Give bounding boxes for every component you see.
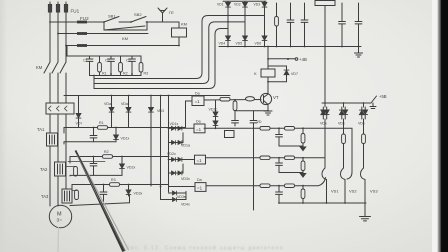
wire feed 2: [94, 22, 245, 84]
wire +4V rail: [268, 47, 295, 59]
pointer stick shadow: [79, 156, 129, 251]
wire row3 bottom: [70, 195, 130, 206]
svg-text:=1: =1: [197, 185, 203, 190]
wire snubber bottom rail: [90, 75, 142, 77]
svg-text:SB1: SB1: [108, 14, 116, 19]
capacitor C14: [276, 158, 283, 173]
current transformer TA2: [55, 162, 66, 176]
svg-text:Рис. 5.12. Схема токовой защит: Рис. 5.12. Схема токовой защиты двигател…: [126, 245, 284, 252]
wire row3 top: [72, 185, 169, 191]
overload relay KK heater marks: [49, 106, 68, 111]
svg-text:=1: =1: [195, 99, 201, 104]
diode VD9: [120, 157, 125, 176]
svg-text:VD2: VD2: [234, 3, 241, 7]
svg-text:VD3: VD3: [254, 3, 261, 7]
resistor R10: [285, 127, 295, 131]
wire row1 right: [204, 128, 352, 179]
svg-text:R1: R1: [102, 72, 107, 76]
block T1: [315, 1, 335, 6]
fuse FU3 on L1 tap: [77, 21, 87, 24]
svg-text:R2: R2: [104, 150, 109, 154]
fuse FU1 phase A: [48, 5, 51, 13]
fuse FU1 phase B: [56, 5, 59, 13]
resistor R18: [342, 134, 346, 144]
svg-text:R1: R1: [99, 121, 104, 125]
resistor R9: [260, 127, 270, 131]
svg-text:C3: C3: [126, 59, 131, 63]
capacitor C11: [90, 157, 97, 176]
diode VD4: [226, 36, 231, 41]
wire row2 bottom: [70, 174, 122, 177]
capacitor C2: [108, 56, 115, 76]
wire phase A below KK: [49, 114, 51, 133]
svg-text:VD6: VD6: [255, 41, 262, 45]
svg-text:C1: C1: [83, 59, 88, 63]
svg-text:FU2: FU2: [80, 16, 89, 21]
svg-text:ГЕ: ГЕ: [169, 10, 174, 15]
wire rectifier column 3: [264, 1, 266, 46]
pointer stick: [75, 150, 126, 252]
capacitor C10: [90, 128, 97, 142]
motor M: [49, 205, 71, 227]
fuse FU5 on L3 tap: [77, 44, 87, 47]
svg-text:VD5: VD5: [236, 41, 243, 45]
contactor KM main contacts: [44, 62, 66, 103]
diode VD2: [243, 3, 248, 8]
svg-text:M: M: [57, 212, 62, 218]
wire control tap L1: [50, 21, 104, 23]
svg-text:VD3: VD3: [157, 109, 164, 113]
gate hook VS1: [322, 168, 327, 203]
resistor R2: [119, 56, 123, 76]
svg-text:VDт: VDт: [76, 122, 83, 126]
wire R19 to hook: [363, 144, 365, 169]
current transformer TA3: [62, 189, 72, 203]
wire C14 to R14 bottom: [279, 172, 303, 174]
svg-text:VD3x: VD3x: [181, 177, 190, 181]
svg-text:VT: VT: [273, 95, 279, 100]
svg-text:+5В: +5В: [379, 94, 387, 99]
capacitor C4 column: [287, 3, 294, 47]
svg-text:VD: VD: [257, 120, 262, 124]
current transformer TA1: [47, 133, 58, 146]
svg-text:VD1: VD1: [217, 3, 224, 7]
fuse FU1 phase C: [64, 5, 67, 13]
svg-text:VDх: VDх: [338, 122, 345, 126]
capacitor C12: [100, 185, 107, 203]
left edge shading: [0, 0, 7, 252]
wire row3 right: [206, 178, 326, 186]
resistor R near TA3: [75, 190, 79, 200]
diode VD10: [126, 185, 131, 197]
wire phase A TA1 to motor: [49, 146, 51, 206]
resistor R3: [139, 56, 143, 76]
resistor R16: [285, 184, 295, 188]
gate hook VS3: [360, 168, 365, 203]
svg-text:3~: 3~: [57, 218, 63, 224]
svg-text:VD4x: VD4x: [181, 203, 190, 207]
svg-text:VDх: VDх: [358, 122, 365, 126]
svg-text:R2: R2: [123, 72, 128, 76]
relay coil K1: [261, 69, 275, 77]
wire feed 3: [94, 29, 228, 89]
logic box U4: [195, 183, 206, 192]
capacitor C6 column: [339, 3, 346, 47]
diode pair VD16 into U3: [169, 158, 195, 162]
svg-text:VD1x: VD1x: [170, 122, 179, 126]
switch to +5V: [371, 96, 377, 103]
wire glare below motor: [57, 228, 60, 252]
wire +5V feeder: [324, 47, 326, 104]
wire tap L3: [66, 45, 179, 47]
svg-text:FU1: FU1: [71, 9, 80, 14]
resistor R11: [301, 128, 305, 146]
wire vbus2: [160, 96, 162, 200]
svg-text:+4В: +4В: [299, 57, 307, 62]
wire relay top to diode: [268, 66, 287, 70]
diode VD13: [149, 96, 154, 113]
overload relay KK box: [46, 103, 74, 114]
resistor R12: [260, 156, 270, 160]
pointer highlight: [77, 154, 125, 251]
wire SQ to coil: [163, 22, 180, 28]
svg-text:C2: C2: [105, 59, 110, 63]
diode VD11: [109, 96, 114, 128]
wire C13 to R11 bottom: [279, 145, 303, 147]
wire coil to L3: [178, 37, 180, 46]
wire bottom common bus: [279, 202, 366, 204]
svg-text:=1: =1: [197, 158, 203, 163]
bottom-left shading: [0, 0, 230, 252]
right black bar: [441, 0, 448, 252]
transistor VT: [260, 93, 271, 104]
svg-text:VD3в: VD3в: [177, 195, 186, 199]
button SB2: [131, 17, 157, 23]
resistor R14: [301, 158, 305, 173]
wire row2 top: [70, 157, 169, 164]
wire vbus1: [150, 96, 152, 187]
svg-text:VDa: VDa: [121, 102, 128, 106]
svg-text:VD1a: VD1a: [181, 144, 190, 148]
resistor R19: [362, 134, 366, 144]
wire row1 top: [64, 128, 186, 134]
wire row2 right: [206, 157, 325, 159]
wire phase C below KK: [65, 114, 67, 189]
resistor R5: [233, 100, 237, 111]
svg-text:VS3: VS3: [370, 189, 378, 194]
contactor coil KM: [172, 28, 187, 37]
diode VD18 on U bottom: [173, 198, 177, 202]
resistor R20 beside TA2: [74, 167, 78, 177]
wire mid diode row: [169, 192, 187, 194]
wire collector: [267, 82, 269, 94]
svg-text:TA1: TA1: [37, 127, 45, 132]
wire R5 bottom rail: [235, 110, 268, 112]
wire phase A vertical: [49, 2, 51, 62]
diode VD7: [284, 70, 289, 75]
svg-text:KM: KM: [36, 65, 43, 70]
sensor SQ antenna symbol: [157, 8, 167, 22]
capacitor C1: [86, 56, 93, 76]
capacitor C15: [276, 186, 283, 203]
wire U4 input: [169, 186, 196, 188]
ground symbol row2: [300, 173, 305, 178]
resistor R21 on base wire: [220, 97, 230, 101]
ground symbol under DC bus: [355, 47, 363, 58]
svg-text:VD2x: VD2x: [167, 152, 176, 156]
wire TA2 second lead: [68, 161, 105, 163]
junction dots: [227, 46, 229, 48]
wire diode bottom: [268, 75, 287, 82]
diode VD18a: [173, 191, 177, 195]
right edge shadow gradient: [438, 0, 442, 252]
svg-text:Da: Da: [196, 120, 201, 124]
diode VD1: [226, 3, 231, 8]
resistor R15: [260, 184, 270, 188]
gate chain VS1: twin diodes VD20: [321, 103, 329, 168]
svg-text:VD2x: VD2x: [127, 166, 136, 170]
capacitor C13: [276, 128, 283, 146]
stacked diodes VD19: [213, 100, 218, 128]
logic box U1: [192, 96, 204, 106]
wire bus to ground: [364, 203, 366, 217]
diode VD5: [243, 36, 248, 41]
wire vbus3: [168, 96, 170, 193]
wire relay feed: [267, 59, 269, 69]
wire snubber top rail: [67, 46, 141, 57]
wire +5V rail: [322, 102, 371, 104]
svg-text:VD1c: VD1c: [209, 108, 218, 112]
svg-text:VD7: VD7: [291, 72, 298, 76]
wire phase B vertical: [57, 2, 59, 62]
resistor R1: [98, 56, 102, 76]
resistor R13: [285, 156, 295, 160]
ground symbol bottom: [360, 217, 371, 221]
wire U1 input: [186, 101, 193, 128]
wire base: [204, 99, 261, 102]
wire rectifier column 2: [244, 1, 246, 46]
resistor R8: [110, 183, 120, 187]
wire DC bus: [219, 46, 361, 48]
diode pair VD17 under U3: [169, 164, 184, 175]
wire rectifier column 1: [227, 1, 229, 46]
capacitor C5 column: [301, 3, 308, 47]
diode VD6: [262, 36, 267, 41]
svg-text:VDa: VDa: [104, 102, 111, 106]
svg-text:Da: Da: [197, 178, 202, 182]
diode pair VD15 under U2: [169, 133, 184, 145]
block A2 small box: [225, 131, 235, 138]
svg-text:K: K: [254, 71, 257, 76]
svg-text:Da: Da: [195, 92, 200, 96]
gate chain VS2: twin diodes VD21: [339, 103, 347, 134]
logic box U2: [194, 124, 205, 133]
wire T1 down: [324, 6, 326, 47]
svg-text:VD4: VD4: [219, 41, 226, 45]
svg-text:TA3: TA3: [41, 194, 49, 199]
wire phase C vertical: [65, 2, 67, 62]
svg-text:VS1: VS1: [331, 189, 339, 194]
wire top rail mid: [64, 95, 230, 97]
svg-text:VDх: VDх: [320, 122, 327, 126]
contact KM aux: [104, 22, 147, 30]
resistor R6: [98, 126, 108, 130]
wire phase B TA2 to motor: [57, 176, 59, 206]
gate hook VS2: [340, 168, 345, 203]
svg-text:VD1x: VD1x: [121, 137, 130, 141]
fuse FU4 on L2 tap: [77, 32, 87, 35]
ground symbol emitter: [264, 111, 272, 115]
resistor R17: [301, 186, 305, 203]
wire R18 to hook: [343, 144, 345, 169]
button SB1: [104, 17, 131, 23]
svg-text:R3: R3: [111, 178, 116, 182]
wire rectifier top rail: [223, 0, 266, 2]
capacitor C7 column: [355, 3, 362, 47]
wire phase B below KK: [57, 114, 59, 162]
svg-text:R3: R3: [144, 72, 149, 76]
diode VD3: [262, 3, 267, 8]
node +4V: [287, 58, 289, 60]
diode VD12: [126, 96, 131, 128]
capacitor C9: [250, 111, 257, 210]
svg-text:VS2: VS2: [349, 189, 357, 194]
diode VD23 branch: [76, 96, 81, 128]
svg-text:=1: =1: [196, 127, 202, 132]
capacitor C8: [232, 111, 239, 126]
ferrite bead on base: [246, 97, 255, 101]
gate chain VS3: twin diodes VD22: [359, 103, 367, 134]
capacitor to ground at rail end: [370, 103, 376, 109]
right edge highlight: [432, 0, 438, 252]
wire feed 1: [94, 16, 265, 79]
svg-text:SB2: SB2: [134, 12, 142, 17]
ground symbol row1: [300, 146, 305, 151]
diode VD8: [114, 128, 119, 142]
resistor R4 column: [275, 3, 279, 47]
diode pair VD14 into U2: [169, 126, 195, 130]
wire emitter to ground: [267, 105, 269, 112]
svg-text:KM: KM: [181, 22, 187, 27]
capacitor C3: [129, 56, 136, 76]
svg-text:VD3x: VD3x: [134, 192, 143, 196]
wire row1 bottom: [64, 142, 116, 144]
resistor R7: [103, 155, 113, 159]
wire tap L2: [58, 33, 148, 35]
U shape bottom wires: [161, 189, 187, 200]
svg-text:TA2: TA2: [40, 167, 48, 172]
svg-text:KM: KM: [122, 36, 128, 41]
logic box U3: [195, 155, 206, 164]
